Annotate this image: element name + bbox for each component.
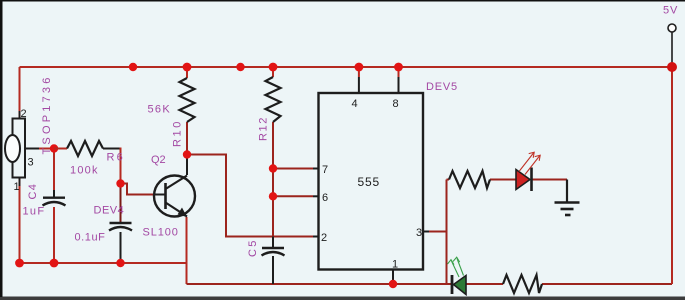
wire base node to DEV4 cap	[120, 184, 122, 223]
svg-text:TSOP1736: TSOP1736	[41, 74, 53, 154]
resistor R12	[258, 77, 281, 141]
svg-text:8: 8	[393, 98, 399, 110]
wire TSOP pin3 to node A	[25, 148, 39, 150]
svg-text:SL100: SL100	[143, 227, 179, 239]
svg-text:0.1uF: 0.1uF	[75, 232, 106, 244]
svg-text:C5: C5	[247, 238, 259, 257]
svg-text:2: 2	[321, 232, 327, 244]
wire resistor to right rail	[542, 283, 672, 285]
wire Q2 emitter down	[186, 217, 188, 284]
ground symbol	[555, 203, 580, 216]
wire base node to Q2 base	[121, 184, 155, 195]
junction pin7 net	[269, 164, 277, 172]
wire lower GND rail	[187, 283, 453, 285]
junction 555 pin1 to GND rail	[389, 280, 397, 288]
wire collector node to 555 pin2 (trigger net)	[187, 155, 313, 237]
node A junction (pin3/C4/R6)	[50, 144, 58, 152]
wire 555 pin8 to VCC	[398, 67, 400, 77]
wire C5 top lead	[272, 237, 274, 248]
svg-text:1uF: 1uF	[23, 206, 46, 218]
base node junction (R6/DEV4/Q2 base)	[116, 179, 124, 187]
wire TSOP pin1 down to GND rail	[19, 178, 21, 264]
svg-text:56K: 56K	[148, 104, 171, 116]
wire 555 pin7	[273, 168, 313, 170]
5V supply terminal	[663, 5, 678, 68]
wire right vertical to 5V	[671, 67, 673, 284]
wire red LED to ground corner	[532, 179, 567, 181]
wire R12 top to VCC rail	[272, 67, 274, 77]
svg-text:DEV5: DEV5	[426, 81, 458, 93]
wire R10 top to VCC rail	[186, 67, 188, 78]
wire VCC top rail	[20, 66, 673, 68]
resistor R6 100k	[54, 141, 125, 177]
svg-text:7: 7	[322, 164, 328, 176]
wire R6 to base node	[103, 148, 121, 150]
junction pin6 net	[269, 192, 277, 200]
wire resistor to red LED	[490, 179, 516, 181]
wire 555 pin6	[273, 195, 313, 197]
resistor R10 56K	[148, 78, 195, 147]
wire DEV4 bottom to GND rail	[120, 232, 122, 263]
wire ground drop	[566, 180, 568, 202]
svg-text:3: 3	[416, 227, 422, 239]
LED green D2	[448, 257, 467, 294]
svg-text:555: 555	[358, 175, 380, 189]
wire 555 pin3 output	[423, 231, 447, 233]
capacitor C4 1uF	[23, 183, 66, 218]
LED red D1	[516, 152, 540, 191]
op-amp/timer U1 555 (DEV5)	[319, 81, 458, 271]
svg-text:1: 1	[392, 259, 398, 271]
wire 555 pin1 to GND rail	[392, 270, 394, 283]
svg-text:3: 3	[28, 157, 34, 169]
resistor R (green LED branch)	[503, 275, 542, 293]
IR receiver DEV1 TSOP1736	[5, 74, 53, 193]
svg-text:R10: R10	[172, 119, 184, 147]
svg-text:100k: 100k	[70, 165, 99, 177]
svg-text:1: 1	[14, 181, 20, 193]
wire Q2 collector to node	[186, 155, 188, 176]
junction dots on VCC rail	[129, 63, 137, 71]
wire node A to C4 top	[53, 149, 55, 198]
svg-text:4: 4	[352, 98, 358, 110]
capacitor C5	[247, 238, 285, 257]
wire output to resistor (red LED branch)	[447, 179, 450, 181]
junction dots on GND rail	[15, 259, 24, 268]
resistor R (red LED branch)	[449, 171, 490, 188]
svg-text:C4: C4	[27, 183, 39, 200]
wire left vertical TSOP pin2 to VCC	[19, 67, 21, 119]
wire 555 pin4 to VCC	[358, 67, 360, 77]
wire R10 bottom to collector node	[186, 122, 188, 155]
wire R12 bottom to pins 7/6/2 net	[272, 122, 274, 237]
transistor Q2 SL100	[143, 154, 196, 239]
svg-text:5V: 5V	[663, 5, 678, 17]
wire C5 bottom to lower GND rail	[272, 256, 274, 284]
svg-text:Q2: Q2	[151, 154, 166, 166]
svg-text:R12: R12	[258, 116, 270, 141]
wire bottom-left GND rail	[20, 262, 187, 264]
svg-text:R6: R6	[107, 152, 125, 164]
svg-text:6: 6	[322, 192, 328, 204]
svg-text:2: 2	[21, 108, 27, 120]
wire output vertical branch	[446, 180, 448, 285]
555 pin3 stub	[423, 231, 429, 233]
svg-text:DEV4: DEV4	[94, 205, 125, 217]
wire C4 bottom to GND rail	[53, 207, 55, 263]
wire green LED to resistor	[466, 283, 503, 285]
capacitor DEV4 0.1uF	[75, 205, 133, 244]
collector node junction	[183, 150, 191, 158]
